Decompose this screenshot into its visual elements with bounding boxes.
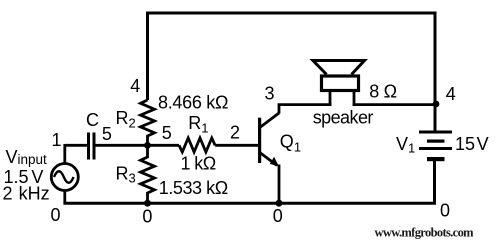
resistor R2 (141, 100, 155, 145)
label R1 value 1 kΩ (181, 154, 216, 174)
label Vinput (6, 147, 48, 167)
wire Q1 collector up (278, 105, 281, 114)
resistor R3 (141, 145, 155, 203)
wire node1 horizontal (65, 144, 87, 147)
svg-text:15: 15 (455, 134, 475, 154)
svg-text:C: C (86, 110, 99, 130)
svg-text:5: 5 (162, 123, 172, 143)
svg-text:V1: V1 (396, 134, 415, 156)
wire top rail node 4 (148, 12, 436, 15)
label R1 (188, 113, 208, 136)
node 0 label right (440, 201, 450, 221)
node 0 label left (51, 205, 61, 225)
svg-text:2: 2 (230, 123, 240, 143)
wire R2 top lead (146, 12, 149, 101)
label R3 value 1.533 kΩ (159, 178, 228, 198)
svg-text:R2: R2 (116, 108, 136, 131)
svg-text:1 kΩ: 1 kΩ (181, 154, 216, 174)
svg-text:4: 4 (446, 84, 456, 104)
transistor Q1 (258, 113, 279, 166)
speaker (313, 61, 365, 91)
wire right rail upper (434, 12, 437, 132)
wire bottom rail node 0 (63, 202, 436, 205)
svg-text:8 Ω: 8 Ω (369, 82, 396, 102)
speaker right leg (353, 92, 356, 106)
wire R1 to Q1 base (215, 144, 258, 147)
node 0 junction dot R3 (144, 200, 151, 207)
svg-text:R3: R3 (116, 164, 136, 186)
node 1 label (52, 130, 62, 150)
speaker left leg (329, 92, 332, 106)
node 5 junction dot (144, 142, 151, 149)
svg-text:kHz: kHz (19, 183, 50, 203)
wire battery bottom to rail (433, 161, 436, 203)
label R3 (116, 164, 136, 186)
label speaker (313, 108, 374, 128)
wire speaker to node 4 right (353, 103, 435, 106)
label R2 value 8.466 kΩ (158, 92, 228, 112)
label 1.5 V (4, 167, 44, 187)
node 4 label (130, 76, 140, 96)
wire collector to speaker left leg (278, 103, 332, 106)
svg-text:0: 0 (440, 201, 450, 221)
battery V1 (419, 131, 452, 162)
svg-text:3: 3 (265, 84, 275, 104)
svg-text:R1: R1 (188, 113, 208, 136)
svg-text:8.466 kΩ: 8.466 kΩ (158, 92, 228, 112)
svg-text:www.mfgrobots.com: www.mfgrobots.com (375, 226, 475, 240)
svg-text:0: 0 (273, 206, 283, 226)
svg-text:2: 2 (3, 183, 13, 203)
label Q1 (280, 131, 301, 154)
svg-text:4: 4 (130, 76, 140, 96)
node 0 junction dot emitter (276, 200, 283, 207)
wire Q1 emitter down (278, 165, 281, 204)
node 0 label emitter (273, 206, 283, 226)
wire cap to node5 junction to R1 (96, 144, 180, 147)
label 2 kHz (3, 183, 50, 203)
label 8 Ω (369, 82, 396, 102)
node 2 label (230, 123, 240, 143)
svg-text:0: 0 (51, 205, 61, 225)
svg-text:Q1: Q1 (280, 131, 301, 154)
label V1 (396, 134, 415, 156)
svg-text:speaker: speaker (313, 108, 374, 128)
svg-text:5: 5 (102, 124, 112, 144)
node 5 label right (162, 123, 172, 143)
label 15 V (455, 134, 489, 154)
svg-text:V: V (477, 134, 489, 154)
label C (86, 110, 99, 130)
node 4 junction dot (433, 101, 440, 108)
wire source bottom lead (63, 190, 66, 203)
node 0 label mid (142, 207, 152, 227)
svg-text:Vinput: Vinput (6, 147, 48, 167)
watermark www.mfgrobots.com (375, 226, 475, 240)
resistor R1 (179, 138, 215, 152)
node 4 label right (446, 84, 456, 104)
node 5 label left (102, 124, 112, 144)
capacitor C (87, 133, 96, 160)
label R2 (116, 108, 136, 131)
AC source Vinput (51, 164, 78, 191)
wire node1 vertical to source (63, 144, 66, 163)
svg-text:0: 0 (142, 207, 152, 227)
svg-text:1.533 kΩ: 1.533 kΩ (159, 178, 228, 198)
node 3 label (265, 84, 275, 104)
svg-text:1: 1 (52, 130, 62, 150)
